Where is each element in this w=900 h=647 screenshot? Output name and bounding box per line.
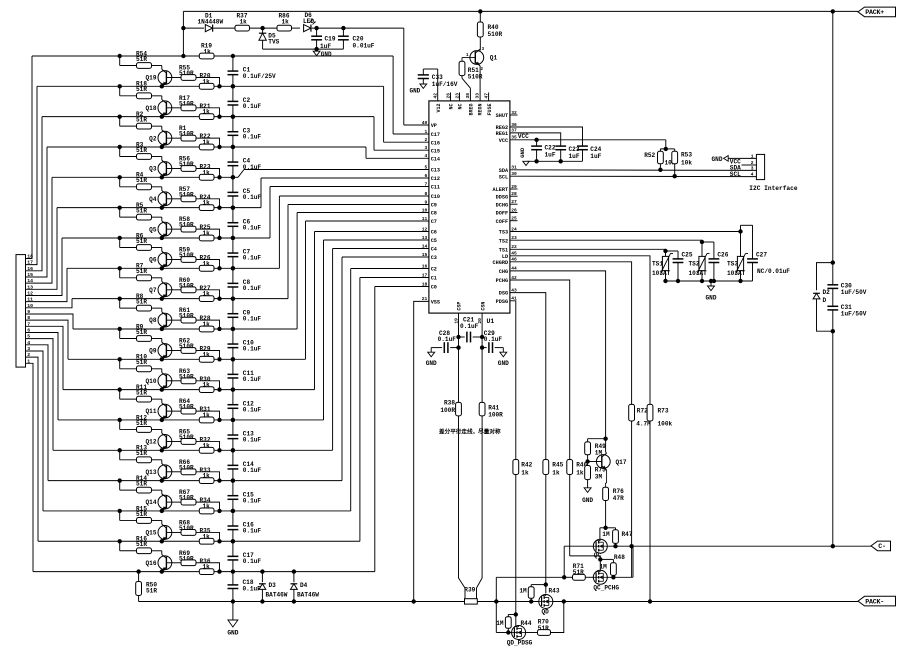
transistor Q19 [146, 69, 172, 88]
wire [510, 220, 518, 222]
wire cell bus VC10 [72, 205, 429, 299]
capacitor C17 0.1uF [228, 539, 262, 574]
resistor R1 510R [179, 125, 196, 141]
svg-text:CHGRD: CHGRD [493, 260, 509, 266]
svg-text:PDSG: PDSG [496, 299, 508, 305]
svg-text:TS3: TS3 [499, 230, 508, 236]
svg-text:1k: 1k [203, 78, 211, 85]
svg-text:GND: GND [519, 147, 526, 158]
svg-text:R47: R47 [622, 531, 633, 538]
resistor R71 51R [573, 563, 586, 580]
svg-text:51R: 51R [136, 389, 147, 396]
pin 42 (PCHG) of U1 [496, 275, 517, 284]
transistor Q7 [149, 282, 172, 301]
transistor Q10 [146, 373, 172, 392]
svg-text:38: 38 [465, 93, 471, 99]
capacitor C22 1uF [531, 140, 556, 164]
svg-text:COFF: COFF [496, 219, 508, 225]
svg-text:C0: C0 [431, 285, 437, 291]
svg-text:510R: 510R [179, 464, 194, 471]
wire [660, 140, 674, 151]
capacitor C26 [709, 251, 729, 283]
pin 13 (C5) of U1 [422, 235, 437, 244]
wire [462, 58, 475, 62]
pin 38 (BREG) of U1 [465, 93, 474, 116]
transistor QC_PCHG MOSFET [593, 570, 619, 591]
wire [196, 78, 222, 89]
svg-text:CHG: CHG [499, 269, 508, 275]
svg-text:C7: C7 [431, 219, 437, 225]
svg-text:GND: GND [426, 360, 437, 367]
svg-text:Q13: Q13 [146, 469, 157, 476]
wire [166, 228, 181, 230]
svg-text:100R: 100R [440, 407, 455, 414]
pin 2 of I2C connector [751, 160, 754, 166]
wire [166, 167, 181, 169]
svg-text:1uF/50V: 1uF/50V [841, 289, 867, 296]
svg-text:8: 8 [425, 191, 428, 197]
wire cell bus VC7 [63, 232, 429, 390]
diode D2 [813, 263, 833, 332]
svg-text:0.1uF/25V: 0.1uF/25V [243, 73, 276, 80]
svg-text:R42: R42 [521, 462, 532, 469]
svg-text:103AT: 103AT [689, 270, 708, 277]
capacitor C23 1uF [555, 146, 580, 164]
pin 6 of connector J1 [27, 327, 30, 333]
svg-text:TS2: TS2 [689, 260, 700, 267]
capacitor C24 1uF [577, 146, 602, 161]
svg-text:U1: U1 [487, 318, 495, 325]
wire cell bus VC11 [67, 196, 429, 268]
resistor R24 1k [199, 194, 214, 211]
transistor Q18 [146, 100, 172, 119]
svg-text:VSS: VSS [431, 300, 440, 306]
svg-text:C16: C16 [431, 140, 440, 146]
capacitor C25 [673, 251, 693, 283]
svg-text:Q8: Q8 [149, 317, 157, 324]
svg-text:0.1uF: 0.1uF [243, 406, 262, 413]
svg-text:1k: 1k [552, 470, 560, 477]
svg-text:3: 3 [425, 145, 428, 151]
svg-text:SCL: SCL [730, 171, 741, 178]
wire [26, 208, 58, 290]
svg-text:VCC: VCC [518, 133, 529, 140]
pin 26 (DOFF) of U1 [496, 207, 517, 216]
svg-text:11: 11 [422, 216, 428, 222]
svg-text:1k: 1k [203, 473, 211, 480]
svg-text:4: 4 [751, 172, 754, 178]
pin 43 (DSG) of U1 [499, 287, 517, 296]
wire [510, 203, 518, 205]
svg-text:GND: GND [712, 156, 723, 163]
pin 4 of I2C connector [751, 172, 754, 178]
capacitor C30 1uF/50V [827, 263, 866, 307]
svg-text:0.1uF: 0.1uF [243, 255, 262, 262]
wire cell bus VC1 [33, 287, 429, 572]
svg-text:C15: C15 [431, 148, 440, 154]
svg-text:1k: 1k [576, 470, 584, 477]
wire [196, 320, 222, 331]
svg-text:0.1uF: 0.1uF [243, 133, 262, 140]
pin 12 of connector J1 [27, 290, 33, 296]
pin 25 (COFF) of U1 [496, 216, 517, 225]
svg-text:47R: 47R [613, 495, 624, 502]
wire [508, 612, 518, 616]
resistor R11 51R [118, 384, 162, 403]
node C- [871, 541, 891, 551]
resistor R27 1k [199, 285, 214, 302]
resistor R7 51R [118, 263, 162, 282]
pin 11 of connector J1 [27, 297, 33, 303]
resistor R44 1M [496, 617, 532, 635]
resistor R14 51R [118, 475, 162, 494]
resistor R58 510R [179, 216, 196, 232]
resistor R9 51R [118, 323, 162, 342]
capacitor C5 0.1uF [228, 175, 262, 210]
svg-text:51R: 51R [136, 116, 147, 123]
svg-text:51R: 51R [136, 359, 147, 366]
resistor R59 510R [179, 246, 196, 262]
transistor Q14 [146, 494, 172, 513]
wire [570, 556, 614, 570]
svg-text:R52: R52 [644, 152, 655, 159]
svg-text:ALERT: ALERT [493, 187, 509, 193]
svg-text:QD_PDSG: QD_PDSG [507, 640, 533, 647]
wire [510, 212, 518, 214]
svg-text:510R: 510R [179, 100, 194, 107]
pin 3 of I2C connector [751, 165, 754, 171]
ground [409, 84, 426, 95]
pin 21 (VSS) of U1 [422, 296, 440, 305]
capacitor C2 0.1uF [228, 84, 262, 119]
ground [519, 147, 529, 165]
svg-text:100k: 100k [658, 420, 673, 427]
svg-text:510R: 510R [179, 373, 194, 380]
svg-text:Q19: Q19 [146, 75, 157, 82]
svg-text:103AT: 103AT [652, 270, 671, 277]
svg-text:0.1uF: 0.1uF [438, 336, 457, 343]
wire [26, 177, 53, 283]
wire net CHGRD [510, 262, 632, 405]
resistor R20 1k [199, 73, 214, 90]
wire cell bus VC3 [43, 269, 429, 511]
svg-text:51R: 51R [136, 511, 147, 518]
svg-text:GND: GND [498, 360, 509, 367]
svg-text:5: 5 [425, 164, 428, 170]
svg-text:51R: 51R [573, 569, 584, 576]
wire cell bus VC6 [58, 240, 429, 420]
svg-text:TS1: TS1 [652, 260, 663, 267]
wire [526, 160, 583, 162]
resistor R53 10k [672, 149, 693, 179]
resistor R51 510R [459, 61, 483, 80]
svg-text:51R: 51R [538, 625, 549, 632]
svg-text:I2C Interface: I2C Interface [749, 185, 798, 192]
pin 17 (C1) of U1 [422, 272, 437, 281]
resistor R26 1k [199, 255, 214, 272]
resistor R21 1k [199, 103, 214, 120]
wire [166, 258, 181, 260]
svg-text:510R: 510R [179, 343, 194, 350]
capacitor C9 0.1uF [228, 296, 262, 331]
wire net PCHG [510, 280, 570, 460]
pin 15 (C3) of U1 [422, 252, 437, 261]
transistor Q4 [149, 191, 172, 210]
resistor R5 51R [118, 202, 162, 221]
svg-text:51R: 51R [136, 450, 147, 457]
resistor R4 51R [118, 172, 162, 191]
svg-text:1k: 1k [203, 412, 211, 419]
svg-text:51R: 51R [136, 177, 147, 184]
svg-text:1k: 1k [203, 503, 211, 510]
wire cell bus VC14 [52, 170, 429, 178]
resistor R42 1k [513, 460, 533, 626]
svg-text:Q7: Q7 [149, 287, 157, 294]
wire cell bus VC4 [48, 257, 429, 481]
svg-text:R43: R43 [549, 588, 560, 595]
svg-text:C12: C12 [431, 176, 440, 182]
capacitor C33 1uF/16V [418, 69, 458, 101]
svg-text:1N4448W: 1N4448W [198, 19, 224, 26]
pin 5 (C13) of U1 [425, 164, 441, 173]
svg-text:1k: 1k [203, 291, 211, 298]
resistor R15 51R [118, 505, 162, 524]
diode D3 BAT46W [259, 569, 288, 603]
pin 8 (C10) of U1 [425, 191, 441, 200]
svg-text:103AT: 103AT [727, 270, 746, 277]
wire cell bus VC17 [37, 86, 429, 142]
svg-text:D4: D4 [300, 582, 308, 589]
svg-text:6: 6 [425, 173, 428, 179]
svg-text:R38: R38 [444, 399, 455, 406]
svg-text:33: 33 [474, 93, 480, 99]
resistor R72 4.7M [629, 404, 651, 577]
wire cell bus VC12 [62, 187, 429, 238]
pin 10 of connector J1 [27, 303, 33, 309]
capacitor C12 0.1uF [228, 387, 262, 422]
transistor Q12 [146, 433, 172, 452]
svg-text:Q2: Q2 [149, 135, 157, 142]
resistor R22 1k [199, 133, 214, 150]
ground [706, 279, 717, 302]
resistor R28 1k [199, 315, 214, 332]
svg-text:510R: 510R [179, 434, 194, 441]
resistor R8 51R [118, 293, 162, 312]
ground [313, 49, 332, 58]
pin 15 of connector J1 [27, 272, 33, 278]
wire [26, 357, 39, 541]
resistor R3 51R [118, 141, 162, 160]
wire [831, 11, 835, 264]
svg-text:R72: R72 [637, 408, 648, 415]
resistor R35 1k [199, 527, 214, 544]
svg-text:VCC: VCC [499, 138, 508, 144]
wire net REG1 [510, 133, 561, 146]
wire [26, 339, 54, 451]
pin 19 (CSP) of U1 [453, 302, 462, 324]
wire [196, 532, 222, 543]
wire [510, 188, 518, 190]
node layout note [439, 428, 501, 436]
ground [426, 352, 437, 367]
svg-text:REG1: REG1 [496, 131, 508, 137]
svg-text:1k: 1k [203, 169, 211, 176]
pin 30 (SCL) of U1 [499, 171, 517, 180]
resistor R30 1k [199, 376, 214, 393]
resistor R23 1k [199, 164, 214, 181]
wire cell bus VC9 [73, 213, 429, 329]
wire [181, 11, 199, 58]
svg-text:1k: 1k [203, 564, 211, 571]
pin 18 (C0) of U1 [422, 281, 437, 290]
pin 23 (NC) of U1 [454, 93, 463, 110]
wire [26, 147, 48, 277]
pin 4 (C14) of U1 [425, 153, 441, 162]
svg-text:2: 2 [425, 137, 428, 143]
wire net PACK- [477, 601, 858, 603]
capacitor C14 0.1uF [228, 448, 262, 483]
svg-text:PACK+: PACK+ [865, 9, 884, 16]
pin 5 of connector J1 [27, 334, 30, 340]
wire [26, 345, 49, 481]
svg-text:1k: 1k [203, 139, 211, 146]
resistor R45 1k [543, 460, 564, 594]
wire net DSG [510, 293, 546, 460]
svg-text:510R: 510R [179, 131, 194, 138]
svg-text:R41: R41 [488, 404, 499, 411]
transistor Q17 [596, 453, 626, 470]
svg-text:R73: R73 [658, 408, 669, 415]
svg-text:3M: 3M [595, 473, 603, 480]
svg-text:510R: 510R [179, 191, 194, 198]
wire net VSS [414, 301, 429, 601]
svg-text:Q6: Q6 [149, 257, 157, 264]
wire net TS2 [510, 240, 714, 259]
resistor R32 1k [199, 436, 214, 453]
svg-text:R45: R45 [552, 462, 563, 469]
svg-text:SDA: SDA [499, 168, 509, 174]
wire [166, 562, 181, 564]
pin 7 (C11) of U1 [425, 181, 441, 190]
pin 14 (C4) of U1 [422, 243, 437, 252]
svg-text:0.1uF: 0.1uF [243, 224, 262, 231]
svg-text:C33: C33 [432, 74, 443, 81]
resistor R63 510R [179, 368, 196, 384]
wire [166, 501, 181, 503]
pin 28 (DDSG) of U1 [496, 191, 517, 200]
capacitor C8 0.1uF [228, 266, 262, 301]
svg-text:REGN: REGN [478, 104, 484, 116]
svg-text:C13: C13 [431, 168, 440, 174]
wire [26, 268, 68, 301]
pin 31 (SDA) of U1 [499, 165, 517, 174]
svg-text:Q18: Q18 [146, 105, 157, 112]
connector P1 I2C interface [749, 154, 798, 192]
wire [588, 462, 607, 488]
pin 17 of connector J1 [27, 260, 33, 266]
wire [562, 546, 566, 579]
wire net PDSG [510, 301, 516, 460]
svg-text:SCL: SCL [499, 174, 508, 180]
svg-text:51R: 51R [146, 588, 157, 595]
resistor R67 510R [179, 489, 196, 505]
svg-text:差分平行走线，尽量对称: 差分平行走线，尽量对称 [439, 428, 501, 436]
resistor R57 510R [179, 186, 196, 202]
svg-text:510R: 510R [179, 555, 194, 562]
capacitor C1 0.1uF [228, 54, 277, 89]
wire [496, 576, 593, 578]
svg-text:51R: 51R [136, 56, 147, 63]
resistor R69 510R [179, 550, 196, 566]
wire [166, 107, 181, 109]
resistor R52 10k [644, 149, 676, 172]
svg-text:7: 7 [425, 181, 428, 187]
pin 13 of connector J1 [27, 284, 33, 290]
svg-text:510R: 510R [179, 525, 194, 532]
pin 1 (C17) of U1 [425, 129, 441, 138]
pin 37 (REG1) of U1 [496, 128, 517, 137]
pin 10 (C8) of U1 [422, 207, 437, 216]
svg-text:510R: 510R [179, 70, 194, 77]
svg-text:16: 16 [422, 263, 428, 269]
svg-text:42: 42 [433, 93, 439, 99]
pin 46 (CHGRD) of U1 [493, 257, 518, 266]
svg-text:Q3: Q3 [149, 166, 157, 173]
resistor R65 510R [179, 428, 196, 444]
svg-text:Q4: Q4 [149, 196, 157, 203]
connector J1 (18-pin cell tap header) [16, 255, 26, 368]
svg-text:0.1uF: 0.1uF [243, 285, 262, 292]
node PACK+ [858, 7, 896, 17]
wire PACK+ rail [183, 9, 858, 13]
diode D5 TVS [259, 28, 317, 49]
wire [510, 195, 518, 197]
svg-text:R48: R48 [614, 554, 625, 561]
svg-text:51R: 51R [136, 480, 147, 487]
svg-text:40: 40 [422, 120, 428, 126]
svg-text:1k: 1k [203, 442, 211, 449]
resistor R29 1k [199, 346, 214, 363]
wire [510, 114, 518, 116]
wire cell bus VC8 [68, 221, 429, 359]
svg-text:510R: 510R [179, 161, 194, 168]
svg-text:C-: C- [878, 543, 886, 550]
resistor R19 1k [199, 43, 214, 59]
svg-text:1k: 1k [203, 230, 211, 237]
transistor Q11 [146, 403, 172, 422]
pin 1 of I2C connector [751, 153, 754, 159]
wire [196, 168, 222, 179]
capacitor C19 1uF [311, 28, 336, 51]
wire [26, 363, 34, 571]
pin 4 of connector J1 [27, 340, 30, 346]
wire [26, 299, 73, 308]
pin 18 of connector J1 [27, 253, 33, 259]
svg-text:Q14: Q14 [146, 499, 157, 506]
resistor R41 100R [479, 402, 503, 418]
svg-text:VP: VP [431, 123, 437, 129]
svg-text:C27: C27 [756, 251, 767, 258]
pin 9 (C9) of U1 [425, 199, 437, 208]
pin 16 of connector J1 [27, 266, 33, 272]
wire [166, 137, 181, 139]
wire ground rail [233, 599, 465, 603]
svg-text:C8: C8 [431, 211, 437, 217]
wire [166, 410, 181, 412]
svg-text:Q1: Q1 [490, 54, 498, 61]
resistor R48 1M [600, 554, 626, 580]
svg-text:GND: GND [321, 51, 332, 58]
